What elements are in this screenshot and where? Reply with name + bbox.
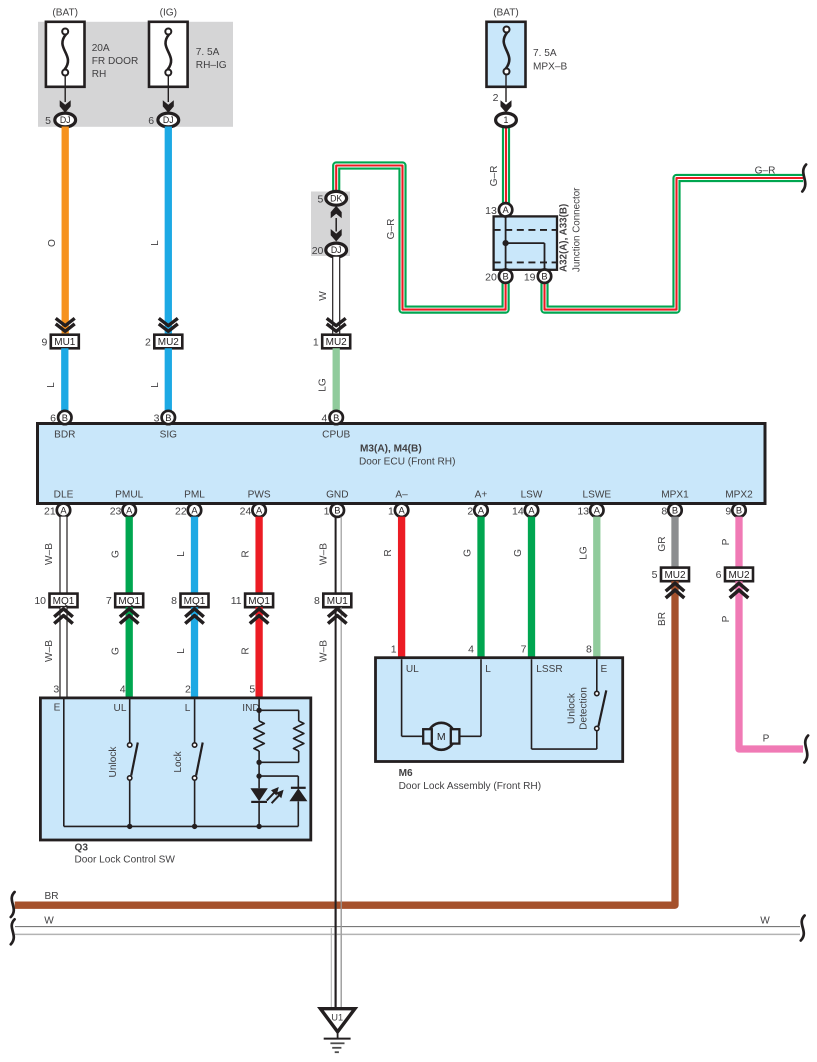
svg-text:22: 22	[175, 505, 187, 517]
svg-text:MQ1: MQ1	[118, 596, 140, 607]
svg-text:Door ECU (Front RH): Door ECU (Front RH)	[359, 457, 455, 468]
svg-text:7. 5A: 7. 5A	[196, 47, 220, 58]
svg-text:A–: A–	[395, 490, 408, 501]
svg-text:8: 8	[661, 505, 667, 517]
svg-text:BR: BR	[657, 612, 668, 626]
svg-text:1: 1	[324, 505, 330, 517]
svg-text:RH: RH	[92, 69, 107, 80]
svg-text:LG: LG	[318, 378, 329, 392]
svg-text:7. 5A: 7. 5A	[533, 48, 557, 59]
svg-text:UL: UL	[406, 664, 419, 675]
svg-text:L: L	[485, 664, 491, 675]
svg-text:24: 24	[240, 505, 252, 517]
svg-text:DK: DK	[330, 193, 342, 203]
svg-text:4: 4	[120, 684, 126, 696]
svg-text:PMUL: PMUL	[115, 490, 143, 501]
svg-text:A: A	[191, 506, 198, 516]
svg-text:8: 8	[586, 644, 592, 656]
svg-text:B: B	[736, 506, 742, 516]
svg-text:U1: U1	[331, 1012, 343, 1022]
svg-text:9: 9	[725, 505, 731, 517]
svg-text:MQ1: MQ1	[184, 596, 206, 607]
svg-text:6: 6	[716, 569, 722, 581]
svg-text:2: 2	[185, 684, 191, 696]
svg-text:B: B	[62, 413, 68, 423]
svg-text:LSSR: LSSR	[536, 664, 562, 675]
svg-text:G–R: G–R	[489, 166, 500, 187]
svg-text:14: 14	[512, 505, 524, 517]
svg-text:M3(A), M4(B): M3(A), M4(B)	[360, 444, 422, 455]
svg-text:E: E	[601, 664, 608, 675]
svg-text:Q3: Q3	[75, 843, 89, 854]
svg-text:G: G	[513, 549, 524, 557]
svg-text:5: 5	[45, 115, 51, 127]
svg-text:UL: UL	[114, 703, 127, 714]
svg-text:R: R	[383, 549, 394, 556]
svg-text:23: 23	[110, 505, 122, 517]
svg-text:GND: GND	[326, 490, 348, 501]
svg-text:3: 3	[154, 413, 160, 425]
svg-text:BR: BR	[44, 891, 58, 902]
svg-text:A: A	[398, 506, 405, 516]
svg-text:P: P	[721, 538, 732, 545]
svg-text:6: 6	[148, 115, 154, 127]
svg-text:LSWE: LSWE	[582, 490, 611, 501]
svg-text:(BAT): (BAT)	[493, 7, 519, 18]
svg-text:SIG: SIG	[160, 430, 178, 441]
svg-text:DJ: DJ	[163, 115, 174, 125]
svg-text:A: A	[528, 506, 535, 516]
svg-text:BDR: BDR	[54, 430, 75, 441]
svg-text:A: A	[502, 205, 509, 215]
svg-text:W: W	[760, 916, 770, 927]
svg-text:G: G	[111, 647, 122, 655]
svg-text:8: 8	[314, 595, 320, 607]
svg-text:MPX1: MPX1	[661, 490, 689, 501]
svg-text:11: 11	[231, 595, 242, 607]
svg-text:B: B	[334, 506, 340, 516]
svg-text:R: R	[241, 550, 252, 557]
svg-text:10: 10	[34, 595, 46, 607]
svg-text:L: L	[185, 703, 191, 714]
svg-text:LSW: LSW	[521, 490, 543, 501]
svg-text:(IG): (IG)	[160, 7, 177, 18]
svg-text:3: 3	[53, 684, 59, 696]
svg-text:13: 13	[485, 205, 497, 217]
svg-text:L: L	[150, 240, 161, 246]
svg-text:RH–IG: RH–IG	[196, 60, 227, 71]
svg-text:G: G	[462, 549, 473, 557]
svg-text:B: B	[165, 413, 171, 423]
svg-text:2: 2	[467, 505, 473, 517]
svg-text:5: 5	[249, 684, 255, 696]
svg-text:MQ1: MQ1	[248, 596, 270, 607]
svg-text:4: 4	[322, 413, 328, 425]
svg-text:R: R	[241, 647, 252, 654]
svg-text:5: 5	[652, 569, 658, 581]
svg-text:1: 1	[313, 336, 319, 348]
svg-text:1: 1	[504, 115, 509, 125]
svg-text:6: 6	[50, 413, 56, 425]
svg-text:MPX2: MPX2	[725, 490, 753, 501]
svg-text:LG: LG	[578, 546, 589, 560]
svg-text:A: A	[60, 506, 67, 516]
svg-text:8: 8	[171, 595, 177, 607]
svg-text:L: L	[176, 648, 187, 654]
svg-text:O: O	[47, 239, 58, 247]
svg-text:G–R: G–R	[755, 166, 776, 177]
svg-text:B: B	[672, 506, 678, 516]
svg-text:1: 1	[388, 505, 394, 517]
svg-text:20A: 20A	[92, 43, 110, 54]
svg-text:DJ: DJ	[331, 245, 342, 255]
svg-text:13: 13	[577, 505, 589, 517]
svg-text:5: 5	[318, 193, 324, 205]
svg-text:Detection: Detection	[579, 687, 590, 730]
svg-text:B: B	[502, 272, 508, 282]
svg-text:4: 4	[468, 644, 474, 656]
svg-text:Door Lock Assembly (Front RH): Door Lock Assembly (Front RH)	[399, 781, 541, 792]
svg-text:G: G	[111, 550, 122, 558]
svg-text:MU2: MU2	[326, 337, 348, 348]
svg-text:W: W	[44, 916, 54, 927]
svg-text:B: B	[333, 413, 339, 423]
svg-text:DLE: DLE	[54, 490, 74, 501]
svg-text:2: 2	[145, 336, 151, 348]
svg-text:Unlock: Unlock	[108, 746, 119, 778]
svg-text:MQ1: MQ1	[53, 596, 75, 607]
svg-text:PWS: PWS	[248, 490, 271, 501]
svg-text:A: A	[478, 506, 485, 516]
svg-text:Lock: Lock	[173, 750, 184, 772]
svg-text:9: 9	[41, 336, 47, 348]
svg-text:A+: A+	[475, 490, 488, 501]
svg-text:20: 20	[312, 245, 324, 257]
svg-text:A: A	[126, 506, 133, 516]
svg-text:B: B	[541, 272, 547, 282]
svg-text:A: A	[594, 506, 601, 516]
svg-text:CPUB: CPUB	[322, 430, 350, 441]
svg-text:DJ: DJ	[60, 115, 71, 125]
svg-text:L: L	[176, 551, 187, 557]
svg-text:FR DOOR: FR DOOR	[92, 56, 139, 67]
svg-text:G–R: G–R	[386, 219, 397, 240]
svg-text:MU2: MU2	[158, 337, 180, 348]
svg-text:1: 1	[391, 644, 397, 656]
svg-text:A32(A), A33(B): A32(A), A33(B)	[559, 204, 570, 272]
svg-text:Junction Connector: Junction Connector	[572, 187, 583, 272]
svg-text:W–B: W–B	[318, 543, 329, 565]
svg-text:7: 7	[106, 595, 112, 607]
svg-text:M: M	[437, 731, 446, 743]
svg-text:P: P	[721, 615, 732, 622]
svg-text:W–B: W–B	[318, 640, 329, 662]
svg-text:W–B: W–B	[44, 640, 55, 662]
svg-text:L: L	[150, 382, 161, 388]
svg-text:MU2: MU2	[728, 570, 750, 581]
svg-text:Door Lock Control SW: Door Lock Control SW	[75, 855, 176, 866]
svg-text:19: 19	[524, 271, 536, 283]
svg-text:W–B: W–B	[44, 543, 55, 565]
svg-text:IND: IND	[242, 703, 259, 714]
svg-text:7: 7	[521, 644, 527, 656]
svg-text:P: P	[763, 734, 770, 745]
svg-text:PML: PML	[184, 490, 205, 501]
svg-text:MU1: MU1	[54, 337, 76, 348]
svg-text:W: W	[318, 291, 329, 301]
svg-text:E: E	[54, 703, 61, 714]
svg-text:M6: M6	[399, 768, 413, 779]
svg-text:GR: GR	[657, 536, 668, 551]
svg-text:2: 2	[493, 92, 499, 104]
svg-text:MPX–B: MPX–B	[533, 62, 567, 73]
svg-text:(BAT): (BAT)	[52, 7, 78, 18]
svg-text:L: L	[46, 382, 57, 388]
svg-text:MU1: MU1	[327, 596, 349, 607]
svg-text:20: 20	[485, 271, 497, 283]
svg-text:Unlock: Unlock	[567, 692, 578, 724]
svg-text:A: A	[256, 506, 263, 516]
svg-text:MU2: MU2	[664, 570, 686, 581]
svg-text:21: 21	[44, 505, 56, 517]
